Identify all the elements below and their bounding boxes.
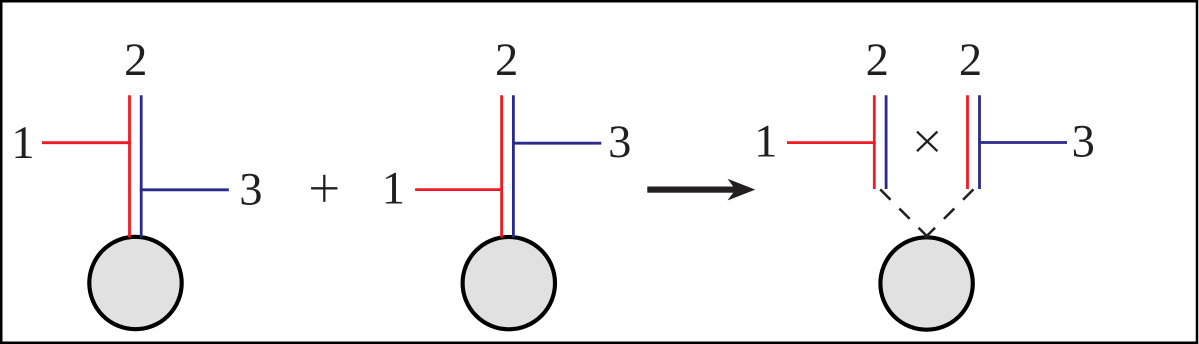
wire: red vertical leg 2 (diagram 2) xyxy=(500,95,503,237)
wire: red horizontal leg 1 (diagram 3) xyxy=(787,141,876,144)
svg-text:3: 3 xyxy=(1072,116,1095,167)
wire: blue vertical (right pair, diagram 3) xyxy=(978,95,981,189)
times sign xyxy=(917,132,937,152)
svg-text:1: 1 xyxy=(754,117,777,168)
node circle (gray blob) diagram 1 xyxy=(89,237,181,329)
wire: blue vertical (left pair, diagram 3) xyxy=(885,95,888,189)
node circle (gray blob) diagram 3 xyxy=(880,237,972,329)
node circle (gray blob) diagram 2 xyxy=(463,237,555,329)
wire: red vertical (right pair, diagram 3) xyxy=(966,95,969,189)
svg-text:3: 3 xyxy=(608,117,631,168)
dashed wire right (diagram 3) xyxy=(925,189,974,238)
svg-text:3: 3 xyxy=(239,165,262,216)
dashed wire left (diagram 3) xyxy=(880,189,929,238)
svg-text:2: 2 xyxy=(959,35,982,86)
plus sign xyxy=(311,175,337,202)
wire: red horizontal leg 1 (diagram 1) xyxy=(42,141,131,144)
wire: red horizontal leg 1 (diagram 2) xyxy=(415,188,503,191)
svg-text:1: 1 xyxy=(382,163,405,214)
wire: blue horizontal leg 3 (diagram 3) xyxy=(978,141,1067,144)
svg-text:2: 2 xyxy=(495,35,518,86)
wire: blue horizontal leg 3 (diagram 1) xyxy=(140,188,229,191)
svg-text:2: 2 xyxy=(866,35,889,86)
wire: blue vertical leg 2 (diagram 2) xyxy=(512,95,515,237)
wire: blue horizontal leg 3 (diagram 2) xyxy=(512,142,601,145)
arrow (implies) xyxy=(647,179,755,201)
wire: red vertical (left pair, diagram 3) xyxy=(873,95,876,189)
svg-text:1: 1 xyxy=(11,118,34,169)
wire: red vertical leg 2 (diagram 1) xyxy=(128,95,131,237)
svg-text:2: 2 xyxy=(124,35,147,86)
wire: blue vertical leg 2 (diagram 1) xyxy=(140,95,143,237)
